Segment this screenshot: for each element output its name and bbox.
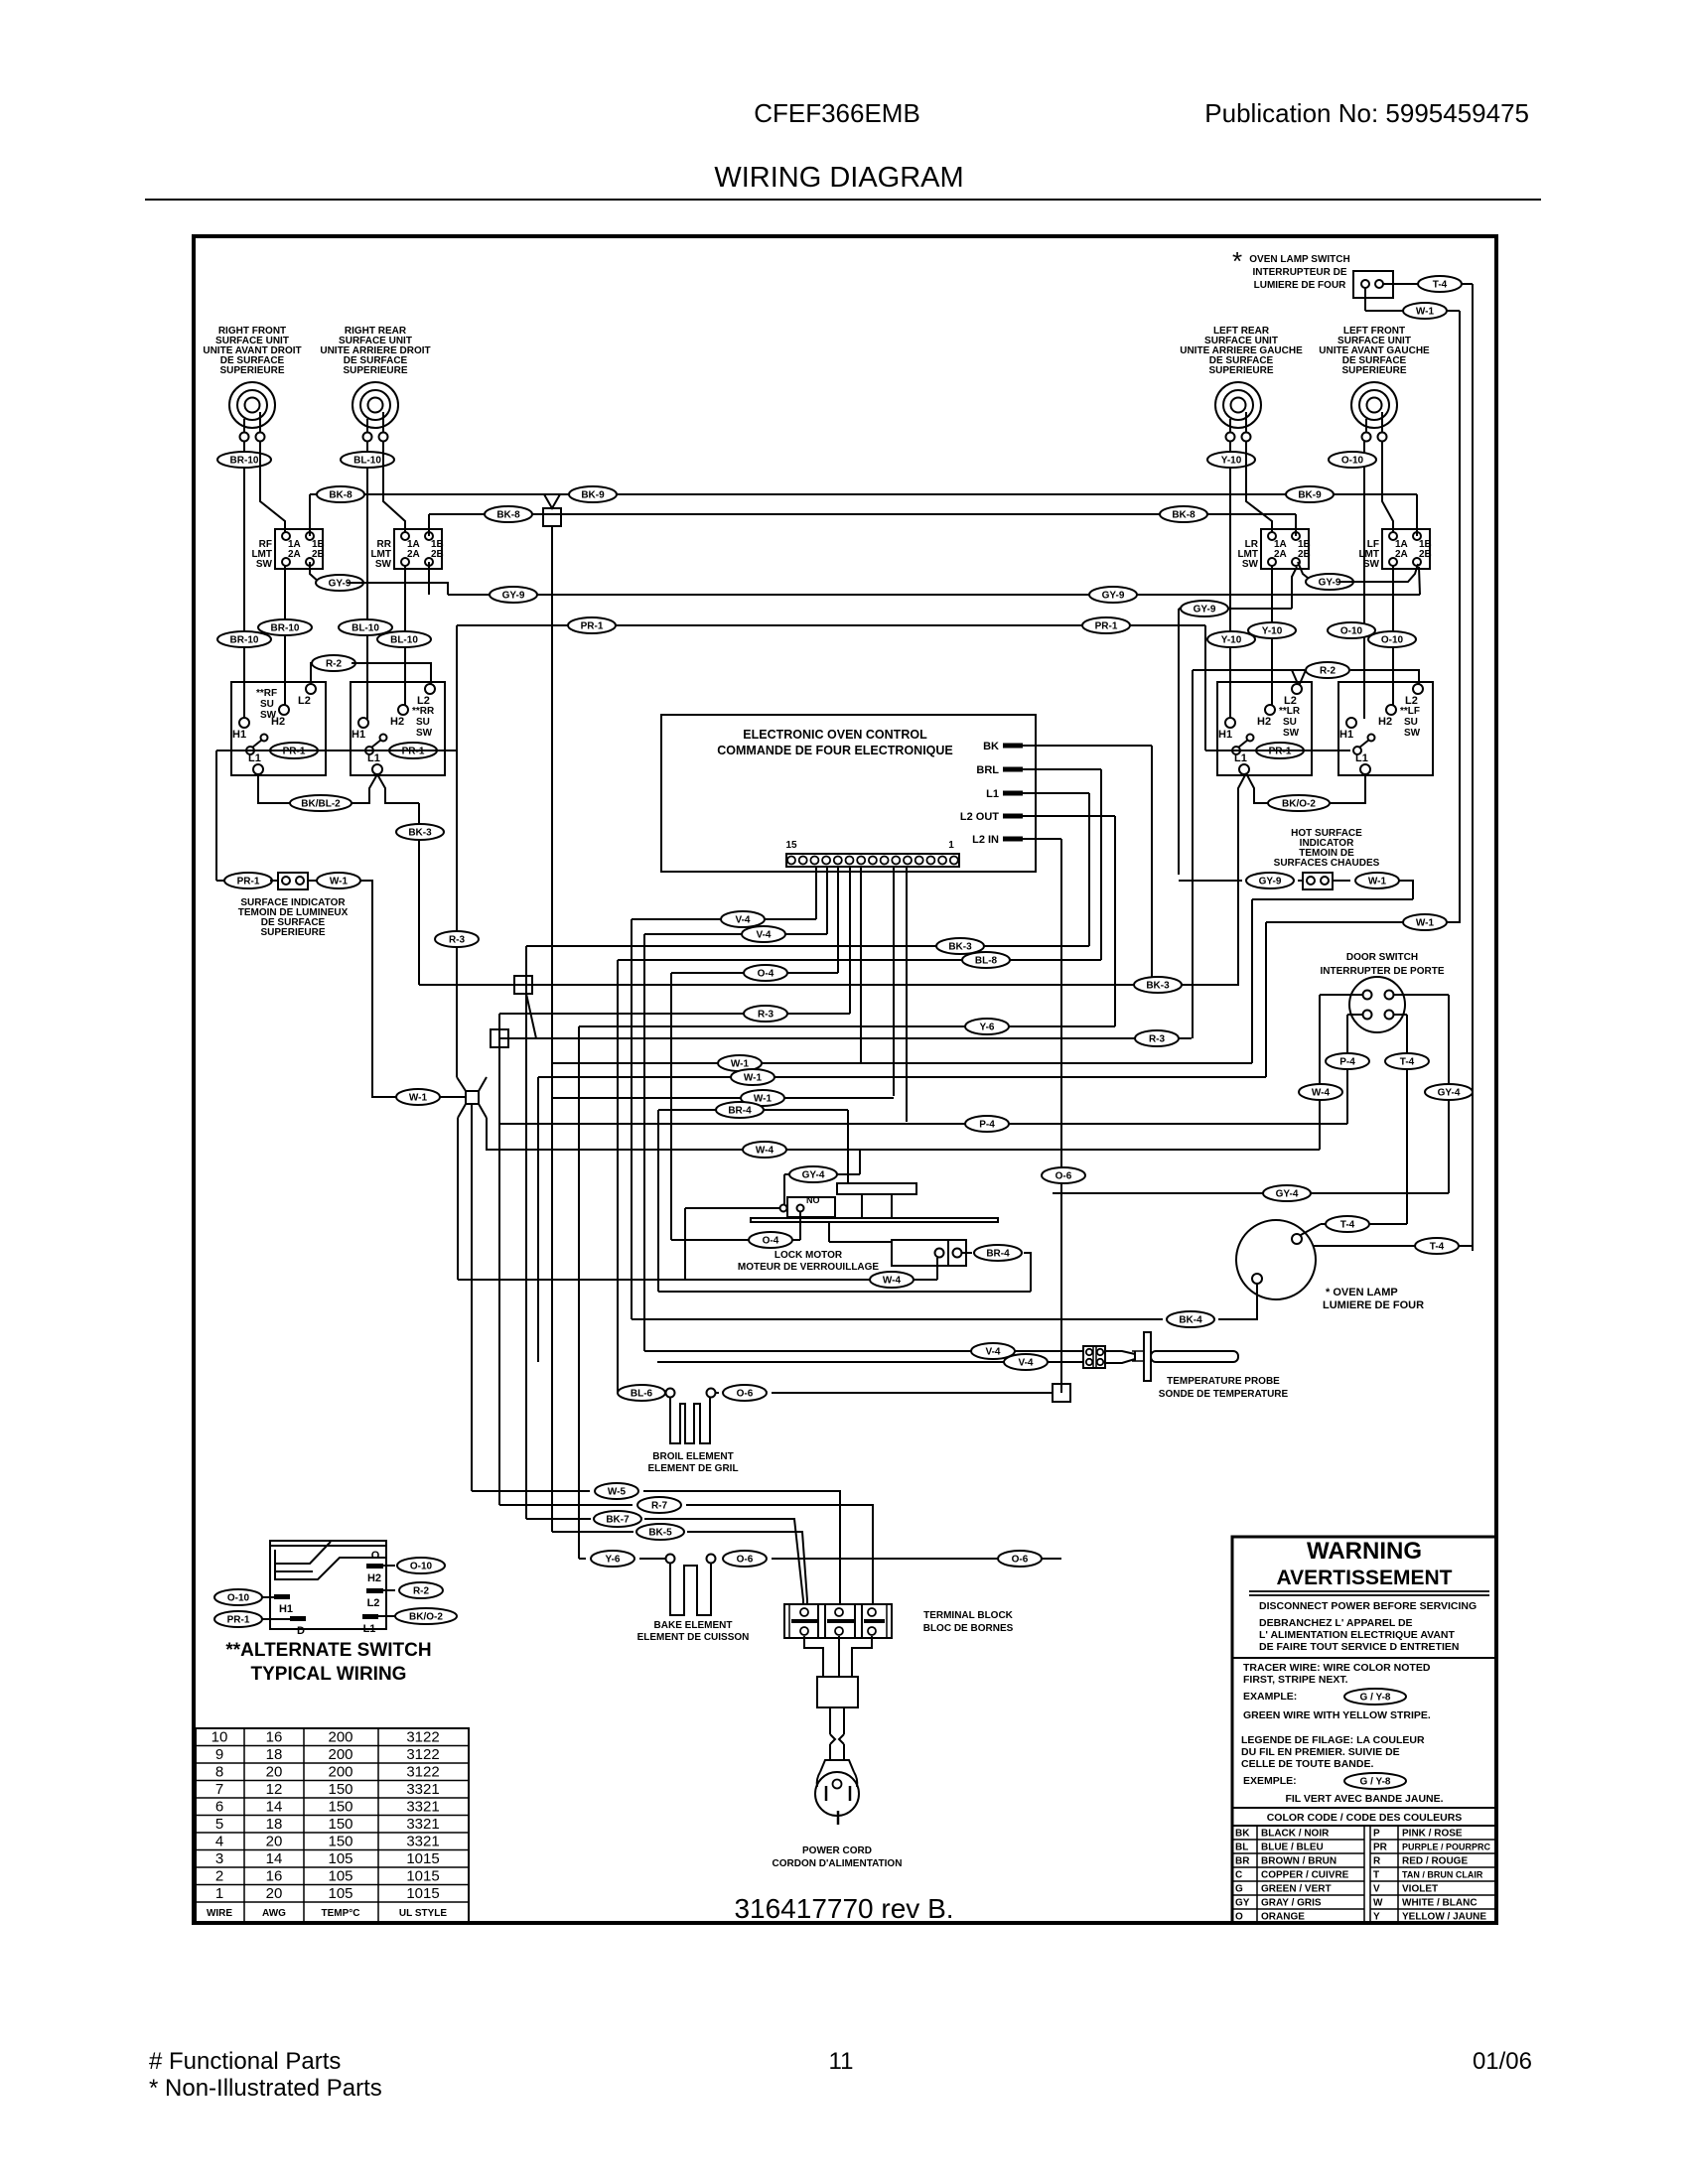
EOC pin L1 <box>986 788 1089 946</box>
svg-text:* OVEN LAMP: * OVEN LAMP <box>1326 1287 1398 1298</box>
svg-text:W: W <box>1373 1898 1383 1909</box>
wire oven lamp switch down <box>1364 288 1366 311</box>
left rear surface unit coil <box>1215 382 1261 442</box>
wire W-4 long line <box>458 1279 937 1281</box>
svg-text:150: 150 <box>328 1781 352 1798</box>
wire LR LMT 2A down to H2 <box>1271 565 1273 705</box>
label lock motor <box>738 1250 880 1273</box>
wire label PR-1 in RR switch <box>389 743 437 758</box>
svg-text:GY-9: GY-9 <box>1102 591 1125 602</box>
wire GY-4 line <box>1053 1192 1449 1194</box>
wire label O-6 <box>723 1385 767 1401</box>
svg-text:BK-3: BK-3 <box>408 828 432 839</box>
svg-text:150: 150 <box>328 1816 352 1833</box>
svg-text:O-10: O-10 <box>410 1562 433 1572</box>
door switch terminal BL <box>1363 1011 1372 1020</box>
label left front surface unit <box>1319 326 1430 376</box>
svg-text:T-4: T-4 <box>1400 1057 1415 1068</box>
color table top line <box>1232 1825 1496 1827</box>
wire BR-4 drop to lock bracket <box>847 1110 849 1183</box>
svg-text:SUPERIEURE: SUPERIEURE <box>219 365 284 376</box>
wire O-6 long to riser <box>772 1558 1061 1560</box>
wire label W-1 <box>731 1069 774 1085</box>
svg-text:BK-7: BK-7 <box>606 1515 630 1526</box>
oven lamp switch terminal right <box>1375 280 1383 288</box>
svg-text:W-1: W-1 <box>409 1093 428 1104</box>
svg-text:TAN / BRUN CLAIR: TAN / BRUN CLAIR <box>1402 1870 1483 1880</box>
svg-text:BK/O-2: BK/O-2 <box>1282 799 1316 810</box>
wire BK-7 riser <box>525 946 527 1519</box>
svg-text:150: 150 <box>328 1834 352 1850</box>
oven lamp body <box>1236 1220 1316 1299</box>
svg-text:O-6: O-6 <box>737 1389 754 1400</box>
LF surface unit switch <box>1338 682 1433 775</box>
wire W-5 link <box>472 1490 590 1492</box>
wire GY-4 riser door <box>1448 995 1450 1193</box>
svg-text:LOCK MOTOR: LOCK MOTOR <box>774 1250 843 1261</box>
wire R-7 link <box>499 1504 633 1506</box>
svg-text:16: 16 <box>266 1868 283 1885</box>
svg-text:SUPERIEURE: SUPERIEURE <box>1341 365 1406 376</box>
wire GY-4 down to lock contact <box>783 1174 785 1204</box>
wire label O-10 <box>1329 452 1376 468</box>
svg-text:18: 18 <box>266 1816 283 1833</box>
wire label BK-4 <box>1167 1311 1214 1327</box>
junction X node white wire net <box>466 1091 479 1104</box>
wire LF coil left lead down to H1 <box>1363 441 1365 719</box>
svg-text:ELEMENT DE CUISSON: ELEMENT DE CUISSON <box>637 1632 750 1643</box>
lock motor switch contact b <box>797 1205 804 1212</box>
surface indicator terminal left <box>282 877 290 885</box>
svg-text:GY-9: GY-9 <box>1319 578 1341 589</box>
wire to BR-4 <box>961 1252 972 1254</box>
svg-text:8: 8 <box>215 1764 223 1781</box>
wire EOC strip pin drop x867 <box>860 866 862 1063</box>
lock motor stem right <box>891 1194 893 1219</box>
svg-text:105: 105 <box>328 1850 352 1867</box>
wire RF L2 up to R-2 <box>311 663 316 685</box>
door switch terminal TL <box>1363 991 1372 1000</box>
wire door BL left <box>1347 1014 1362 1016</box>
wire label GY-9 <box>1246 873 1294 888</box>
wire label W-1 <box>1403 914 1447 930</box>
svg-text:O-10: O-10 <box>227 1593 250 1604</box>
wire BK/O-2 to LF L1 <box>1330 774 1365 803</box>
svg-text:BLUE / BLEU: BLUE / BLEU <box>1261 1843 1324 1853</box>
svg-text:Y-6: Y-6 <box>605 1555 620 1566</box>
svg-text:T-4: T-4 <box>1433 280 1448 291</box>
example tracer label <box>1344 1689 1406 1705</box>
svg-text:BL-10: BL-10 <box>353 456 381 467</box>
wire O-6 to junction <box>772 1392 1053 1394</box>
svg-text:W-1: W-1 <box>744 1073 763 1084</box>
svg-text:V: V <box>1373 1884 1380 1895</box>
svg-text:T-4: T-4 <box>1430 1242 1445 1253</box>
svg-text:GY-9: GY-9 <box>1194 605 1216 615</box>
label terminal block <box>923 1610 1014 1634</box>
EOC pin BRL <box>976 764 1101 960</box>
svg-text:O-4: O-4 <box>758 969 774 980</box>
svg-text:* Non-Illustrated Parts: * Non-Illustrated Parts <box>149 2075 382 2102</box>
surface indicator lamp body <box>278 873 308 889</box>
svg-text:1: 1 <box>948 840 954 851</box>
wire into lock switch <box>685 1207 779 1209</box>
hot surface indicator terminal left <box>1307 877 1315 885</box>
svg-text:MOTEUR DE VERROUILLAGE: MOTEUR DE VERROUILLAGE <box>738 1262 880 1273</box>
svg-text:**LF: **LF <box>1400 706 1420 717</box>
svg-text:W-1: W-1 <box>330 877 349 887</box>
svg-text:BK-9: BK-9 <box>1298 490 1322 501</box>
svg-text:DISCONNECT POWER BEFORE SERVIC: DISCONNECT POWER BEFORE SERVICING <box>1259 1600 1477 1612</box>
svg-text:BK: BK <box>983 741 999 752</box>
junction X diagonal lower left <box>458 1104 466 1118</box>
svg-text:15: 15 <box>785 840 797 851</box>
wire BK-4 long line <box>632 1318 1163 1320</box>
wire Y-6 line <box>579 1025 1115 1027</box>
svg-text:# Functional Parts: # Functional Parts <box>149 2048 341 2075</box>
svg-text:L2: L2 <box>298 695 311 707</box>
svg-text:**ALTERNATE SWITCH: **ALTERNATE SWITCH <box>225 1640 431 1661</box>
wire O-4 riser <box>670 973 672 1240</box>
svg-text:200: 200 <box>328 1764 352 1781</box>
wire alt switch O-10 right <box>383 1565 395 1567</box>
broil element coil <box>670 1398 710 1443</box>
svg-text:SONDE DE TEMPERATURE: SONDE DE TEMPERATURE <box>1159 1389 1289 1400</box>
color code table <box>1232 1826 1496 1923</box>
svg-text:WARNING: WARNING <box>1307 1538 1422 1565</box>
wire V-4 line to probe <box>644 1350 1083 1352</box>
wire label V-4 <box>721 911 765 927</box>
wire R-2 to RR L2 <box>352 663 431 685</box>
wire label V-4 <box>1004 1354 1048 1370</box>
svg-text:1: 1 <box>215 1885 223 1902</box>
tracer wire note <box>1243 1662 1431 1703</box>
wire label GY-4 below door switch <box>1425 1084 1473 1100</box>
svg-text:O-10: O-10 <box>1341 456 1364 467</box>
wire V-4 riser c <box>537 1077 539 1362</box>
svg-text:BK-4: BK-4 <box>1179 1315 1202 1326</box>
svg-text:FIL VERT AVEC BANDE JAUNE.: FIL VERT AVEC BANDE JAUNE. <box>1285 1793 1443 1805</box>
wire into PR-1 label <box>216 880 226 882</box>
svg-text:W-1: W-1 <box>1368 877 1387 887</box>
svg-text:3321: 3321 <box>406 1816 439 1833</box>
svg-text:H2: H2 <box>1257 716 1271 728</box>
wire label PR-1 <box>1082 617 1130 633</box>
svg-text:R-2: R-2 <box>413 1586 430 1597</box>
lock motor top bracket <box>837 1183 916 1194</box>
wire V-4 line b <box>644 933 827 935</box>
svg-text:O: O <box>1235 1912 1243 1923</box>
svg-text:CFEF366EMB: CFEF366EMB <box>754 98 920 128</box>
warning text english <box>1259 1600 1477 1653</box>
wire gauge table <box>196 1728 469 1923</box>
svg-text:2A: 2A <box>1274 549 1287 560</box>
surface indicator terminal right <box>296 877 304 885</box>
wire EOC strip pin drop x900 <box>893 866 895 1096</box>
svg-text:BROWN / BRUN: BROWN / BRUN <box>1261 1856 1336 1867</box>
wire P-4 line <box>499 1123 1347 1125</box>
wire riser right x1201 <box>1192 670 1194 1038</box>
wire W-4 riser door <box>1319 995 1321 1150</box>
svg-text:GY-4: GY-4 <box>1276 1189 1299 1200</box>
lock motor connector <box>892 1240 966 1266</box>
label left rear surface unit <box>1180 326 1303 376</box>
label surface indicator <box>238 897 349 938</box>
wire label BR-10 <box>258 619 312 635</box>
oven lamp terminal top <box>1292 1234 1302 1244</box>
svg-text:BRL: BRL <box>976 764 999 776</box>
wire connector to W-4 line <box>936 1258 938 1280</box>
wire label BL-10 <box>341 452 394 468</box>
svg-text:SU: SU <box>260 699 274 710</box>
wire bus down to LF 1B <box>1416 494 1418 536</box>
svg-text:3: 3 <box>215 1850 223 1867</box>
svg-text:L2 IN: L2 IN <box>972 834 999 846</box>
svg-text:5: 5 <box>215 1816 223 1833</box>
wire label Y-10 <box>1207 452 1255 468</box>
wire label W-4 <box>743 1142 786 1158</box>
wire label P-4 below door switch <box>1326 1053 1369 1069</box>
svg-text:P-4: P-4 <box>1339 1057 1355 1068</box>
svg-text:Y-10: Y-10 <box>1221 635 1242 646</box>
svg-text:105: 105 <box>328 1885 352 1902</box>
wire alt switch BK/O-2 <box>378 1615 395 1617</box>
svg-text:ELEMENT DE GRIL: ELEMENT DE GRIL <box>647 1463 738 1474</box>
wire label BL-6 <box>618 1385 665 1401</box>
svg-text:R-3: R-3 <box>449 935 466 946</box>
svg-text:DE FAIRE TOUT SERVICE D E: DE FAIRE TOUT SERVICE D ENTRETIEN <box>1259 1641 1459 1653</box>
svg-text:105: 105 <box>328 1868 352 1885</box>
power cord plug <box>815 1760 859 1825</box>
warning divider 1 <box>1232 1657 1496 1659</box>
svg-text:3321: 3321 <box>406 1799 439 1816</box>
svg-text:O-6: O-6 <box>1055 1171 1072 1182</box>
svg-text:Y-10: Y-10 <box>1221 456 1242 467</box>
wire bus PR-1 long <box>457 624 1205 626</box>
svg-text:BL-10: BL-10 <box>390 635 418 646</box>
label broil element <box>647 1451 738 1474</box>
temperature probe connector <box>1083 1346 1105 1368</box>
svg-text:R-2: R-2 <box>326 659 343 670</box>
svg-text:10: 10 <box>211 1729 228 1746</box>
wire label W-4 <box>870 1272 914 1288</box>
wire lock switch riser <box>684 1208 686 1280</box>
wire label GY-9 <box>1306 574 1353 590</box>
svg-text:W-1: W-1 <box>754 1094 773 1105</box>
wire label V-4 <box>742 926 785 942</box>
wire terminal block middle down <box>838 1636 840 1677</box>
svg-text:G / Y-8: G / Y-8 <box>1360 1777 1391 1788</box>
wire to Y-6 <box>579 1558 586 1560</box>
svg-text:PR: PR <box>1373 1843 1388 1853</box>
label bake element <box>637 1620 750 1643</box>
warning box <box>1232 1537 1496 1923</box>
wire EOC strip pin drop x844 <box>837 866 839 973</box>
wire label O-10 <box>397 1558 445 1573</box>
wire bus GY-9 long <box>448 594 1420 596</box>
wire W-1 line c <box>552 1097 894 1099</box>
wire label BK/O-2 <box>395 1608 457 1624</box>
wire label Y-10 <box>1248 622 1296 638</box>
power cord strain relief <box>817 1677 858 1707</box>
wire LR L1 vee left <box>1238 773 1246 803</box>
svg-text:W-4: W-4 <box>756 1146 774 1157</box>
wire lamp diagonal to T-4 <box>1301 1224 1321 1235</box>
label right rear surface unit <box>320 326 430 376</box>
wire W-1 link right <box>1266 921 1460 923</box>
wire PR-1 drop to surface indicator <box>215 751 217 881</box>
probe taper upper <box>1105 1351 1135 1354</box>
wire W-1 to riser <box>1447 310 1460 312</box>
svg-text:INTERRUPTER DE PORTE: INTERRUPTER DE PORTE <box>1320 966 1444 977</box>
wire W-4 short riser <box>486 1118 488 1151</box>
bake element coil <box>670 1564 711 1615</box>
svg-text:3122: 3122 <box>406 1729 439 1746</box>
svg-text:YELLOW / JAUNE: YELLOW / JAUNE <box>1402 1912 1486 1923</box>
svg-text:DEBRANCHEZ L' APPAREL DE: DEBRANCHEZ L' APPAREL DE <box>1259 1617 1413 1629</box>
svg-text:INTERRUPTEUR DE: INTERRUPTEUR DE <box>1252 267 1346 278</box>
label right front surface unit <box>203 326 301 376</box>
wire P-4 riser door <box>1346 1015 1348 1124</box>
wire T-4 to right riser <box>1462 283 1473 285</box>
svg-text:W-1: W-1 <box>1416 918 1435 929</box>
wire indicator to W-1 <box>308 880 317 882</box>
svg-text:2A: 2A <box>1395 549 1408 560</box>
svg-text:H1: H1 <box>1339 729 1353 741</box>
wire label R-3 <box>1135 1030 1179 1046</box>
wire GY-4 link at lock motor <box>784 1173 860 1175</box>
wire label O-6 on L2 IN riser <box>1042 1167 1085 1183</box>
svg-text:2B: 2B <box>312 549 325 560</box>
wire RF L1 down to BK/BL-2 <box>258 774 291 803</box>
wire W-1 down and right <box>360 881 396 1097</box>
junction square O-6 <box>1053 1384 1070 1402</box>
svg-text:BK-8: BK-8 <box>496 510 520 521</box>
svg-text:EXEMPLE:: EXEMPLE: <box>1243 1775 1297 1787</box>
svg-text:BL-10: BL-10 <box>352 623 379 634</box>
svg-text:H1: H1 <box>232 729 246 741</box>
svg-text:PURPLE / POURPRC: PURPLE / POURPRC <box>1402 1843 1491 1852</box>
alternate switch box <box>270 1541 386 1629</box>
wire bus BK-9 top <box>310 493 1417 495</box>
hot surface indicator terminal right <box>1321 877 1329 885</box>
svg-text:SUPERIEURE: SUPERIEURE <box>343 365 407 376</box>
alternate switch terminals <box>274 1550 383 1637</box>
wire GY-9 into indicator <box>1298 880 1303 882</box>
wire LR L1 riser down <box>1237 788 1239 986</box>
svg-text:GREEN WIRE WITH YELLOW STRIPE.: GREEN WIRE WITH YELLOW STRIPE. <box>1243 1709 1431 1721</box>
wire label BR-4 <box>974 1245 1022 1261</box>
lock connector terminal a <box>935 1249 944 1258</box>
svg-text:BK-3: BK-3 <box>948 942 972 953</box>
lock motor plate <box>751 1218 998 1222</box>
wire BK-4 riser <box>631 919 633 1319</box>
svg-text:W-4: W-4 <box>883 1276 902 1287</box>
svg-text:**RR: **RR <box>412 706 435 717</box>
wire RR LMT 2A down to H2 <box>404 565 406 706</box>
legende de filage <box>1241 1734 1425 1787</box>
wire W-1 riser b <box>1265 922 1267 1077</box>
wire to W-1 <box>1365 310 1403 312</box>
svg-text:200: 200 <box>328 1746 352 1763</box>
door switch body <box>1349 977 1405 1032</box>
wire label O-10 <box>1328 622 1375 638</box>
svg-text:316417770 rev B.: 316417770 rev B. <box>734 1893 953 1924</box>
svg-text:LUMIERE DE FOUR: LUMIERE DE FOUR <box>1323 1299 1424 1311</box>
svg-text:200: 200 <box>328 1729 352 1746</box>
svg-text:SW: SW <box>375 559 392 570</box>
wire label BK-9 <box>569 486 617 502</box>
label power cord <box>773 1845 903 1869</box>
probe mounting flange <box>1144 1332 1151 1381</box>
svg-text:**LR: **LR <box>1279 706 1301 717</box>
svg-text:T-4: T-4 <box>1340 1220 1355 1231</box>
wire BK net long riser center <box>551 526 553 1532</box>
wire BK/BL-2 to RR L1 vee left <box>352 774 377 803</box>
svg-text:RED / ROUGE: RED / ROUGE <box>1402 1856 1468 1867</box>
svg-text:W-5: W-5 <box>608 1487 627 1498</box>
wire V-4 line a <box>632 918 816 920</box>
wire label W-4 below door switch <box>1299 1084 1342 1100</box>
svg-text:FIRST, STRIPE NEXT.: FIRST, STRIPE NEXT. <box>1243 1674 1348 1686</box>
wire label GY-4 <box>1263 1185 1311 1201</box>
wire label BK-8 <box>317 486 364 502</box>
RR limit switch <box>370 529 443 570</box>
svg-text:L2: L2 <box>367 1597 380 1609</box>
svg-text:BR-10: BR-10 <box>271 623 300 634</box>
svg-text:1015: 1015 <box>406 1850 439 1867</box>
svg-text:EXAMPLE:: EXAMPLE: <box>1243 1691 1297 1703</box>
svg-text:4: 4 <box>215 1834 223 1850</box>
wire label BR-10 <box>217 631 271 647</box>
wire RR L1 vee right to riser <box>377 774 419 803</box>
label door switch <box>1320 952 1444 977</box>
wire R-3 line <box>499 1013 850 1015</box>
wire BL-6 riser <box>617 960 619 1393</box>
svg-text:T: T <box>1373 1870 1379 1881</box>
wire BR-4 long line <box>658 1291 1031 1293</box>
wire EOC strip pin drop x856 <box>849 866 851 1014</box>
hot surface indicator lamp body <box>1303 873 1333 889</box>
svg-text:ORANGE: ORANGE <box>1261 1912 1305 1923</box>
svg-text:CELLE DE TOUTE BANDE.: CELLE DE TOUTE BANDE. <box>1241 1758 1373 1770</box>
wire PR-1 lever LR-LF <box>1205 750 1350 751</box>
svg-text:R-7: R-7 <box>651 1501 668 1512</box>
svg-text:BR-4: BR-4 <box>986 1249 1010 1260</box>
wire label W-1 <box>718 1055 762 1071</box>
wire label BK-3 <box>936 938 984 954</box>
svg-text:BLACK / NOIR: BLACK / NOIR <box>1261 1829 1330 1840</box>
wire label GY-4 <box>789 1166 837 1182</box>
wire V-4 line b to probe <box>657 1361 1083 1363</box>
wire indicator to W-1 <box>1333 880 1350 882</box>
wire lamp right to T-4 riser <box>1313 1245 1473 1247</box>
wire lamp T-4 link <box>1321 1223 1407 1225</box>
wire label O-4 <box>744 965 787 981</box>
wire label R-3 <box>744 1006 787 1022</box>
wire R-3 riser from lever line <box>456 625 458 1077</box>
wire W-4 line drop to GY-4 <box>859 1150 861 1174</box>
svg-text:L2 OUT: L2 OUT <box>960 811 999 823</box>
svg-text:DOOR SWITCH: DOOR SWITCH <box>1346 952 1418 963</box>
wire label BL-10 <box>377 631 431 647</box>
svg-text:GY-9: GY-9 <box>1259 877 1282 887</box>
wire label R-2 <box>312 655 355 671</box>
wire BL-8 line <box>618 959 1101 961</box>
svg-text:Publication No: 5995459475: Publication No: 5995459475 <box>1204 98 1529 128</box>
svg-text:L1: L1 <box>363 1623 376 1635</box>
svg-text:L' ALIMENTATION ELECTRIQUE A: L' ALIMENTATION ELECTRIQUE AVANT <box>1259 1629 1456 1641</box>
